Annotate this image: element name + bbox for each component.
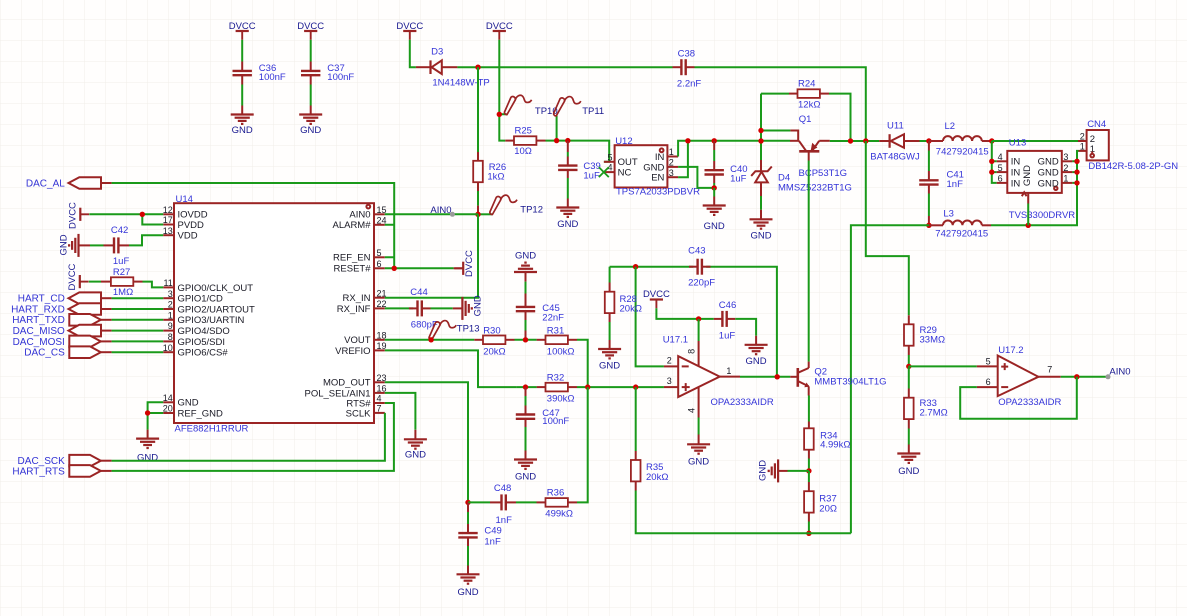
supply DVCC at IOVDD xyxy=(80,208,89,221)
svg-text:HART_RXD: HART_RXD xyxy=(11,304,65,315)
resistor R30 xyxy=(474,336,514,345)
IC U12 TPS7A2033PDBVR body xyxy=(615,145,668,187)
svg-text:L2: L2 xyxy=(945,121,956,132)
U14 pin 12 IOVDD xyxy=(163,205,208,221)
resistor R36 xyxy=(516,498,577,507)
U17.1 pin 4 xyxy=(686,388,698,435)
wire R31 right down to R32 node xyxy=(577,340,588,387)
svg-text:DVCC: DVCC xyxy=(229,21,256,32)
wire pin2 branch down xyxy=(636,267,664,367)
port flag DAC_MISO xyxy=(69,325,112,337)
U14 pin 15 AIN0 xyxy=(349,205,386,221)
junction L2 right xyxy=(989,138,994,143)
wire jog to Q1 collector xyxy=(790,131,798,141)
wire R30 to R31 xyxy=(515,339,537,341)
svg-text:5: 5 xyxy=(607,152,612,162)
CN4 pin 2 xyxy=(1078,132,1087,142)
svg-text:1uF: 1uF xyxy=(113,256,130,267)
svg-text:100nF: 100nF xyxy=(259,72,286,83)
svg-text:1nF: 1nF xyxy=(484,536,501,547)
capacitor C37 xyxy=(301,62,320,85)
junction U12 IN xyxy=(685,138,690,143)
wire R36 up to R32 node xyxy=(577,387,588,502)
ground GND at POL_SEL xyxy=(404,430,427,449)
U13 pin 1 GND xyxy=(1038,174,1073,190)
svg-text:2.2nF: 2.2nF xyxy=(677,79,701,90)
svg-text:8: 8 xyxy=(168,332,173,342)
ground GND at C36 xyxy=(231,106,254,124)
U14 pin 10 GPIO6/CS# xyxy=(163,343,229,359)
svg-text:MMBT3904LT1G: MMBT3904LT1G xyxy=(814,377,886,388)
svg-text:C42: C42 xyxy=(111,225,128,236)
svg-text:C44: C44 xyxy=(410,287,427,298)
U13 thermal pad pin xyxy=(1022,192,1028,225)
wire D3 junction down to R26 xyxy=(477,67,479,152)
supply DVCC at U17.1 xyxy=(650,300,663,309)
svg-text:3: 3 xyxy=(667,376,672,386)
svg-text:6: 6 xyxy=(998,174,1003,184)
svg-text:GND: GND xyxy=(750,230,771,241)
wire R26 pin to junction xyxy=(477,206,479,215)
svg-text:5: 5 xyxy=(377,248,382,258)
wire C46 to GND xyxy=(735,319,756,336)
svg-text:100nF: 100nF xyxy=(542,416,569,427)
wire L3 to U13/CN4 xyxy=(991,151,1079,225)
svg-text:AFE882H1RRUR: AFE882H1RRUR xyxy=(175,423,249,434)
wire MOD_OUT pin23 xyxy=(385,382,468,502)
U17.1 pin 2 xyxy=(664,356,678,367)
svg-text:17: 17 xyxy=(163,215,173,225)
junction C43/pin2 branch xyxy=(633,264,638,269)
svg-text:C46: C46 xyxy=(719,300,736,311)
wire VOUT pin18 xyxy=(385,339,475,341)
wire HART_RTS to RTS# xyxy=(112,403,394,471)
svg-text:REF_GND: REF_GND xyxy=(178,408,224,419)
ground GND at C44 xyxy=(453,297,472,320)
wire C43 net xyxy=(610,267,777,377)
svg-text:3: 3 xyxy=(669,168,674,178)
junction C40 top xyxy=(712,138,717,143)
svg-text:3: 3 xyxy=(1063,152,1068,162)
ground GND at C37 xyxy=(299,106,322,124)
svg-text:1kΩ: 1kΩ xyxy=(487,172,504,183)
svg-text:GND: GND xyxy=(232,125,253,136)
svg-text:7427920415: 7427920415 xyxy=(936,146,989,157)
U12 pin 2 GND xyxy=(643,158,678,174)
wire C36 to GND xyxy=(241,85,243,106)
junction C40/U12 GND xyxy=(712,185,717,190)
junction U13 pin1 xyxy=(1074,180,1079,185)
U14 pin 22 RX_INF xyxy=(337,299,387,315)
junction U17.2 feedback xyxy=(1074,374,1079,379)
wire C42 to VDD xyxy=(129,235,163,245)
resistor R25 xyxy=(505,136,545,145)
svg-text:GND: GND xyxy=(898,466,919,477)
wire DAC_AL / ALARM# / RESET# net xyxy=(112,183,454,268)
svg-text:DVCC: DVCC xyxy=(643,289,670,300)
svg-text:GND: GND xyxy=(300,125,321,136)
junction TP10 xyxy=(497,112,502,117)
wire R32 right to op-amp xyxy=(577,386,664,388)
inductor L2 xyxy=(929,136,992,141)
svg-text:7427920415: 7427920415 xyxy=(935,228,988,239)
svg-text:D3: D3 xyxy=(431,46,443,57)
wire L3 left rail xyxy=(851,225,929,533)
junction R30/R31/C45 xyxy=(523,337,528,342)
svg-text:IN: IN xyxy=(1011,178,1021,189)
svg-text:MOD_OUT: MOD_OUT xyxy=(323,378,371,389)
junction D4/R24 jog xyxy=(758,128,763,133)
svg-text:GND: GND xyxy=(405,449,426,460)
diode U11 BAT48GWJ xyxy=(879,134,919,148)
svg-text:SCLK: SCLK xyxy=(346,408,371,419)
junction U13 pin4 xyxy=(989,159,994,164)
svg-text:2: 2 xyxy=(1080,132,1085,142)
U14 pin 5 REF_EN xyxy=(333,248,385,264)
svg-text:U11: U11 xyxy=(887,121,904,132)
svg-text:GND: GND xyxy=(1038,168,1059,179)
svg-text:2: 2 xyxy=(667,356,672,366)
wire HART_CD to U14 xyxy=(112,297,164,299)
wire C37 to GND xyxy=(310,85,312,106)
U14 pin 4 RTS# xyxy=(346,394,384,410)
svg-text:GND: GND xyxy=(557,219,578,230)
svg-text:VREFIO: VREFIO xyxy=(335,346,370,357)
svg-text:VOUT: VOUT xyxy=(344,335,371,346)
svg-text:20Ω: 20Ω xyxy=(819,504,837,515)
U14 pin 20 REF_GND xyxy=(163,404,223,420)
wire GND/REF_GND pins xyxy=(148,402,164,429)
capacitor C47 xyxy=(516,387,535,450)
junction REF_GND xyxy=(145,410,150,415)
svg-text:1: 1 xyxy=(726,366,731,376)
junction U13 pin2 xyxy=(1074,169,1079,174)
transistor Q1 BCP53T1G xyxy=(790,141,830,161)
testpoint TP13 xyxy=(429,321,456,340)
junction RESET#/DVCC xyxy=(392,266,397,271)
junction DVCC/C46/pin8 xyxy=(696,316,701,321)
U14 pin 14 GND xyxy=(163,393,199,409)
ground GND at U17.1 pin4 xyxy=(687,435,710,454)
svg-text:DVCC: DVCC xyxy=(297,21,324,32)
svg-text:1: 1 xyxy=(1063,174,1068,184)
U14 pin 17 PVDD xyxy=(163,215,204,231)
svg-text:20: 20 xyxy=(163,404,173,414)
U14 pin 3 GPIO1/CD xyxy=(163,289,223,305)
wire U11 to L2 xyxy=(920,140,929,142)
svg-text:RESET#: RESET# xyxy=(334,264,372,275)
ground GND at C39 xyxy=(556,199,579,217)
U17.1 pin 1 output xyxy=(720,366,740,377)
svg-text:2.7MΩ: 2.7MΩ xyxy=(920,408,948,419)
svg-text:R24: R24 xyxy=(798,78,815,89)
U12 pin 3 EN xyxy=(651,168,678,184)
ground GND at R33 xyxy=(897,445,920,463)
capacitor C49 xyxy=(458,502,477,565)
svg-text:20kΩ: 20kΩ xyxy=(646,472,668,483)
svg-text:RX_IN: RX_IN xyxy=(343,293,371,304)
svg-text:12kΩ: 12kΩ xyxy=(798,99,820,110)
wire DVCC to C37 xyxy=(310,40,312,62)
supply DVCC at R25 xyxy=(493,31,506,40)
svg-text:10: 10 xyxy=(163,343,173,353)
svg-text:TVS3300DRVR: TVS3300DRVR xyxy=(1009,210,1075,221)
svg-text:EN: EN xyxy=(651,173,664,184)
svg-text:GND: GND xyxy=(599,361,620,372)
svg-text:33MΩ: 33MΩ xyxy=(920,334,946,345)
port flag DAC_CS xyxy=(69,346,111,358)
U13 pin 5 IN xyxy=(997,163,1021,179)
wire HART_TXD to U14 xyxy=(112,319,164,321)
junction C38 right xyxy=(863,138,868,143)
svg-text:GPIO0/CLK_OUT: GPIO0/CLK_OUT xyxy=(178,283,254,294)
svg-text:20kΩ: 20kΩ xyxy=(483,346,505,357)
junction D4/IN net xyxy=(758,138,763,143)
svg-text:2: 2 xyxy=(168,300,173,310)
U14 pin 13 VDD xyxy=(163,226,198,242)
svg-text:10Ω: 10Ω xyxy=(514,146,532,157)
U12 pin 1 IN xyxy=(655,147,678,163)
svg-text:RX_INF: RX_INF xyxy=(337,304,371,315)
junction R35 top xyxy=(633,384,638,389)
wire C44 to GND xyxy=(431,307,453,309)
svg-text:GND: GND xyxy=(1038,178,1059,189)
svg-text:ALARM#: ALARM# xyxy=(332,220,371,231)
port flag HART_CD xyxy=(69,292,112,304)
svg-text:6: 6 xyxy=(986,377,991,387)
ground GND at C46 xyxy=(745,336,768,354)
wire GND to C42 xyxy=(90,244,104,246)
svg-text:12: 12 xyxy=(163,205,173,215)
svg-text:9: 9 xyxy=(168,321,173,331)
port flag HART_RTS xyxy=(69,465,111,477)
net label AIN0 output xyxy=(1106,366,1131,379)
U14 pin 16 POL_SEL/AIN1 xyxy=(304,384,386,400)
svg-text:IN: IN xyxy=(655,152,665,163)
transistor Q2 MMBT3904LT1G xyxy=(790,362,809,396)
ground GND at C42 xyxy=(69,234,90,257)
junction U13 pin3 xyxy=(1074,159,1079,164)
svg-text:2: 2 xyxy=(1063,163,1068,173)
wire U17.2 feedback loop xyxy=(960,377,1077,419)
svg-text:DVCC: DVCC xyxy=(486,21,513,32)
svg-text:3: 3 xyxy=(168,289,173,299)
testpoint TP12 xyxy=(478,195,517,214)
net label AIN0 xyxy=(430,205,455,217)
junction AIN0/R26/TP12 xyxy=(475,212,480,217)
svg-text:U14: U14 xyxy=(176,194,193,205)
U14 pin 24 ALARM# xyxy=(332,215,386,231)
svg-text:HART_CD: HART_CD xyxy=(18,294,65,305)
wire DVCC to R27 xyxy=(89,281,101,283)
svg-text:NC: NC xyxy=(618,168,632,179)
capacitor C46 xyxy=(714,311,736,327)
port flag DAC_SCK xyxy=(69,455,111,467)
U13 pin 2 GND xyxy=(1038,163,1073,179)
U14 pin 9 GPIO4/SDO xyxy=(163,321,230,337)
junction D3 output xyxy=(475,65,480,70)
junction R31/R32 xyxy=(585,384,590,389)
svg-text:BAT48GWJ: BAT48GWJ xyxy=(870,152,920,163)
junction C41 bottom xyxy=(926,223,931,228)
supply DVCC at RESET# xyxy=(454,262,464,275)
svg-text:TP11: TP11 xyxy=(582,106,604,117)
ground GND at R28 xyxy=(598,340,621,358)
supply DVCC at D3 xyxy=(403,31,416,40)
svg-text:1N4148W-TP: 1N4148W-TP xyxy=(432,77,489,88)
svg-text:R36: R36 xyxy=(547,487,564,498)
svg-text:100kΩ: 100kΩ xyxy=(547,346,575,357)
wire DVCC to D3 anode xyxy=(410,40,416,67)
junction C39 xyxy=(565,138,570,143)
svg-text:C49: C49 xyxy=(484,526,501,537)
svg-text:GND: GND xyxy=(515,251,536,262)
svg-text:100nF: 100nF xyxy=(327,72,354,83)
svg-text:22nF: 22nF xyxy=(542,312,564,323)
svg-text:U12: U12 xyxy=(615,136,632,147)
U14 pin 1 GPIO3/UARTIN xyxy=(163,310,244,326)
resistor R34 xyxy=(804,422,814,471)
port flag HART_TXD xyxy=(69,314,111,326)
wire DVCC to C46/pin8 xyxy=(656,308,713,319)
wire U12 IN/EN net xyxy=(678,141,790,177)
svg-text:GND: GND xyxy=(1038,157,1059,168)
wire R24 right xyxy=(829,94,851,141)
ground GND at D4 xyxy=(750,210,773,229)
wire DAC_MISO to U14 xyxy=(112,330,164,332)
svg-text:OPA2333AIDR: OPA2333AIDR xyxy=(711,397,774,408)
junction C41 top xyxy=(926,138,931,143)
wire R27 to GPIO0 xyxy=(143,282,164,288)
port flag HART_RXD xyxy=(69,303,112,315)
no-connect X at U12 NC xyxy=(599,167,609,177)
junction R24 right xyxy=(848,138,853,143)
capacitor C43 xyxy=(689,259,711,275)
svg-text:1uF: 1uF xyxy=(730,174,747,185)
svg-text:14: 14 xyxy=(163,393,173,403)
junction R29/R33 xyxy=(906,364,911,369)
U14 pin 18 VOUT xyxy=(344,330,386,346)
svg-text:GND: GND xyxy=(746,356,767,367)
testpoint TP10 xyxy=(504,95,531,114)
U13 pin 3 GND xyxy=(1038,152,1073,168)
svg-text:4.99kΩ: 4.99kΩ xyxy=(820,439,850,450)
wire POL_SEL pin16 to GND xyxy=(385,393,416,430)
svg-text:GND: GND xyxy=(704,221,725,232)
svg-text:7: 7 xyxy=(1047,364,1052,374)
svg-text:13: 13 xyxy=(163,226,173,236)
U12 pin 5 OUT xyxy=(604,152,638,168)
svg-text:R31: R31 xyxy=(547,326,564,337)
svg-text:1: 1 xyxy=(1080,142,1085,152)
svg-text:U17.2: U17.2 xyxy=(998,345,1023,356)
IC U13 TVS3300DRVR body xyxy=(1007,151,1062,193)
ground GND at REF_GND xyxy=(136,430,159,448)
capacitor C40 xyxy=(705,141,724,188)
wire VREFIO pin19 xyxy=(385,350,517,387)
svg-text:8: 8 xyxy=(686,349,696,354)
wire DAC_CS to U14 xyxy=(112,351,164,353)
supply DVCC at C37 xyxy=(304,31,317,40)
svg-text:DVCC: DVCC xyxy=(464,250,475,277)
wire R26 to AIN0 row xyxy=(477,191,479,206)
svg-text:DAC_CS: DAC_CS xyxy=(24,348,65,359)
svg-text:1uF: 1uF xyxy=(719,330,736,341)
port flag DAC_MOSI xyxy=(69,336,111,348)
wire U17.1 output to Q2 base xyxy=(740,376,790,378)
resistor R31 xyxy=(537,336,577,345)
U13 pin 6 IN xyxy=(997,174,1021,190)
U14 pin 11 GPIO0/CLK_OUT xyxy=(163,278,253,294)
svg-text:IN: IN xyxy=(1011,157,1021,168)
svg-text:BCP53T1G: BCP53T1G xyxy=(799,168,848,179)
svg-text:VDD: VDD xyxy=(178,231,198,242)
wire D3 to C38 xyxy=(457,66,672,68)
U14 pin 23 MOD_OUT xyxy=(323,373,387,389)
svg-text:AIN0: AIN0 xyxy=(349,210,370,221)
svg-text:AIN0: AIN0 xyxy=(430,205,451,216)
U17.2 pin 7 output xyxy=(1038,364,1060,376)
capacitor C44 xyxy=(409,300,431,316)
ground GND at C45 (inverted) xyxy=(514,263,537,282)
capacitor C45 xyxy=(516,282,535,340)
svg-text:R25: R25 xyxy=(515,125,532,136)
wire U13 left IN pins xyxy=(992,141,997,183)
wire emitter net to R29 xyxy=(866,141,909,315)
svg-text:GND: GND xyxy=(1022,165,1033,186)
svg-text:HART_RTS: HART_RTS xyxy=(12,466,65,477)
svg-text:Q1: Q1 xyxy=(799,114,812,125)
svg-text:R32: R32 xyxy=(547,373,564,384)
svg-text:DAC_MISO: DAC_MISO xyxy=(13,326,65,337)
testpoint TP11 xyxy=(554,97,581,141)
svg-text:5: 5 xyxy=(986,356,991,366)
capacitor C42 xyxy=(104,237,130,253)
connector CN4 body xyxy=(1087,130,1109,160)
svg-text:5: 5 xyxy=(998,163,1003,173)
capacitor C41 xyxy=(919,141,938,225)
svg-text:GND: GND xyxy=(515,472,536,483)
svg-text:1: 1 xyxy=(669,147,674,157)
capacitor C48 xyxy=(468,494,516,510)
junction IOVDD/PVDD xyxy=(140,212,145,217)
junction TP11/R25 xyxy=(554,138,559,143)
svg-text:OPA2333AIDR: OPA2333AIDR xyxy=(998,397,1061,408)
svg-text:C38: C38 xyxy=(678,48,695,59)
svg-text:GPIO5/SDI: GPIO5/SDI xyxy=(178,337,226,348)
resistor R35 xyxy=(631,387,641,490)
U14 pin 19 VREFIO xyxy=(335,341,386,357)
wire DAC_MOSI to U14 xyxy=(112,340,164,342)
svg-text:GPIO6/CS#: GPIO6/CS# xyxy=(178,348,229,359)
junction C48/C49 xyxy=(465,500,470,505)
svg-text:6: 6 xyxy=(377,259,382,269)
svg-text:GND: GND xyxy=(473,295,484,316)
wire R29/R33 to U17.2 pin5 xyxy=(909,365,977,367)
svg-text:DVCC: DVCC xyxy=(68,202,79,229)
ground GND at Q2 emitter xyxy=(769,459,809,482)
svg-text:IN: IN xyxy=(1011,168,1021,179)
U17.1 pin 3 xyxy=(664,376,678,387)
CN4 pin 1 xyxy=(1079,142,1087,152)
wire Q1 emitter to U11 xyxy=(830,140,879,142)
svg-text:DAC_AL: DAC_AL xyxy=(26,178,65,189)
U14 pin 8 GPIO5/SDI xyxy=(163,332,225,348)
U17.2 pin 5 xyxy=(977,356,998,366)
resistor R32 xyxy=(537,383,577,392)
svg-text:GPIO3/UARTIN: GPIO3/UARTIN xyxy=(178,315,245,326)
U13 pin 4 IN xyxy=(997,152,1021,168)
